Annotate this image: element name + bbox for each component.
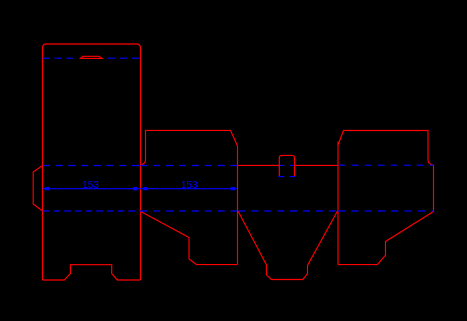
slot fold dashes bottom (278, 176, 295, 178)
flap F2 top outline (141, 130, 238, 164)
flap F2 bottom outline (141, 211, 238, 264)
fold line y211 panel P3 run (238, 210, 337, 212)
fold line y165 panel P1 run (43, 165, 141, 167)
fold line y211 panel P2 run (140, 210, 237, 212)
glue tab left (33, 166, 42, 212)
fold line y165 right (339, 164, 434, 166)
trapezoid flap P3 bottom (238, 211, 338, 280)
flap F4 top outline (338, 131, 434, 166)
dim arrow right (231, 187, 235, 190)
thumb tab (80, 56, 102, 58)
flap F4 bottom outline (338, 212, 434, 265)
slot fold dashes mid (280, 164, 295, 166)
fold line y211 panel P4 run (338, 210, 434, 212)
lock slot tab (279, 155, 294, 176)
dim arrow mid pair (133, 187, 137, 190)
dim arrow left (45, 187, 49, 190)
fold line y165 panel P2 run (140, 165, 237, 167)
panel P1 bottom edge with notch (43, 265, 141, 280)
dimension line (43, 188, 238, 190)
wire P3/P4 boundary (337, 142, 339, 265)
wire P2/P3 boundary (237, 146, 239, 265)
panel P4 right edge (433, 165, 435, 212)
fold line y58 left run (43, 57, 75, 59)
fold line y211 panel P1 run (43, 210, 141, 212)
panel P3 top cut right (295, 164, 339, 166)
svg-text:153: 153 (181, 180, 198, 191)
fold line y58 right run (108, 57, 141, 59)
svg-text:153: 153 (82, 180, 99, 191)
panel P3 top cut left (238, 164, 280, 166)
panel P1 outline (43, 44, 141, 280)
